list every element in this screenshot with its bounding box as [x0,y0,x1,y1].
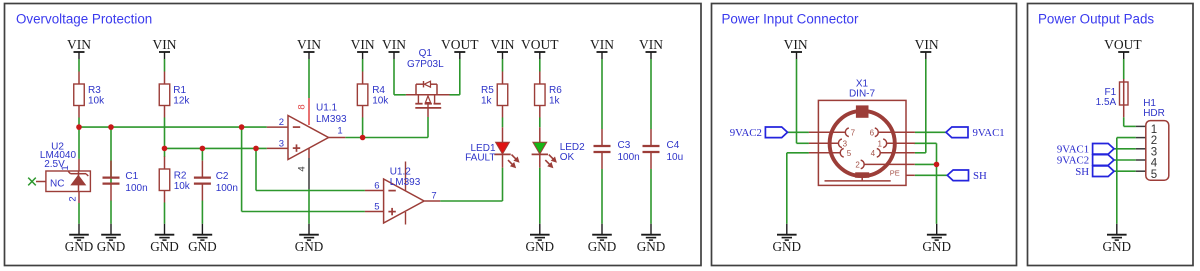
svg-text:12k: 12k [173,95,190,106]
svg-text:GND: GND [150,239,179,254]
svg-text:VIN: VIN [351,37,375,52]
svg-text:DIN-7: DIN-7 [849,89,876,100]
svg-text:SH: SH [1075,166,1089,178]
svg-text:NC: NC [50,179,64,190]
svg-text:1k: 1k [481,95,493,106]
svg-text:6: 6 [870,128,875,137]
svg-text:FAULT: FAULT [465,153,495,164]
svg-text:OK: OK [560,152,575,163]
svg-text:5: 5 [1151,169,1157,181]
svg-text:9VAC1: 9VAC1 [1057,144,1089,156]
svg-text:GND: GND [295,239,324,254]
svg-text:4: 4 [871,149,876,158]
svg-text:U1.1: U1.1 [316,103,338,114]
svg-text:G7P03L: G7P03L [407,59,444,70]
svg-text:10k: 10k [174,181,191,192]
svg-text:1: 1 [1151,124,1157,136]
svg-text:VOUT: VOUT [441,37,479,52]
svg-text:VIN: VIN [491,37,515,52]
svg-text:5: 5 [374,201,379,212]
svg-text:3: 3 [843,139,848,148]
svg-text:VIN: VIN [297,37,321,52]
svg-text:Power Input Connector: Power Input Connector [722,12,860,27]
svg-text:2: 2 [68,196,79,201]
svg-text:C4: C4 [667,140,680,151]
svg-text:SH: SH [973,170,987,182]
svg-text:1: 1 [877,139,882,148]
svg-text:VIN: VIN [639,37,663,52]
svg-text:Power Output Pads: Power Output Pads [1038,12,1154,27]
svg-text:GND: GND [65,239,94,254]
svg-text:PE: PE [890,169,900,178]
svg-text:10u: 10u [667,152,684,163]
svg-text:100n: 100n [216,183,238,194]
svg-text:2: 2 [279,117,284,128]
svg-text:VOUT: VOUT [1104,37,1142,52]
svg-text:100n: 100n [125,183,147,194]
svg-text:2: 2 [1151,135,1157,147]
svg-text:LM393: LM393 [390,177,421,188]
svg-text:100n: 100n [618,152,640,163]
svg-text:9VAC2: 9VAC2 [730,127,762,139]
svg-text:6: 6 [374,180,379,191]
svg-text:10k: 10k [372,95,389,106]
svg-text:10k: 10k [88,95,105,106]
svg-text:VIN: VIN [67,37,91,52]
svg-text:LED2: LED2 [560,142,585,153]
svg-text:GND: GND [97,239,126,254]
svg-text:VIN: VIN [590,37,614,52]
svg-text:HDR: HDR [1143,108,1165,119]
svg-text:GND: GND [526,239,555,254]
svg-text:GND: GND [637,239,666,254]
svg-text:GND: GND [922,239,951,254]
svg-text:8: 8 [296,104,307,109]
svg-text:VIN: VIN [784,37,808,52]
svg-text:7: 7 [851,128,856,137]
svg-text:GND: GND [773,239,802,254]
svg-text:VIN: VIN [153,37,177,52]
svg-text:1: 1 [337,126,342,137]
svg-text:R2: R2 [174,171,187,182]
svg-text:C2: C2 [216,171,229,182]
svg-text:GND: GND [1103,239,1132,254]
svg-text:1: 1 [60,165,71,170]
svg-text:GND: GND [188,239,217,254]
svg-text:C3: C3 [618,140,631,151]
svg-text:3: 3 [279,139,284,150]
svg-text:VOUT: VOUT [521,37,559,52]
svg-text:Q1: Q1 [419,48,433,59]
svg-text:3: 3 [1151,146,1157,158]
svg-text:2: 2 [855,160,860,169]
svg-text:1k: 1k [549,95,561,106]
svg-text:9VAC1: 9VAC1 [973,127,1005,139]
svg-text:VIN: VIN [382,37,406,52]
svg-text:4: 4 [1151,158,1158,170]
svg-text:9VAC2: 9VAC2 [1057,155,1089,167]
svg-text:1.5A: 1.5A [1096,97,1117,108]
svg-text:U1.2: U1.2 [390,166,412,177]
svg-text:GND: GND [588,239,617,254]
svg-text:Overvoltage Protection: Overvoltage Protection [16,12,152,27]
svg-text:5: 5 [847,149,852,158]
svg-text:LM393: LM393 [316,114,347,125]
svg-text:4: 4 [296,166,307,171]
svg-text:VIN: VIN [915,37,939,52]
svg-text:7: 7 [431,191,436,202]
svg-text:C1: C1 [125,171,138,182]
